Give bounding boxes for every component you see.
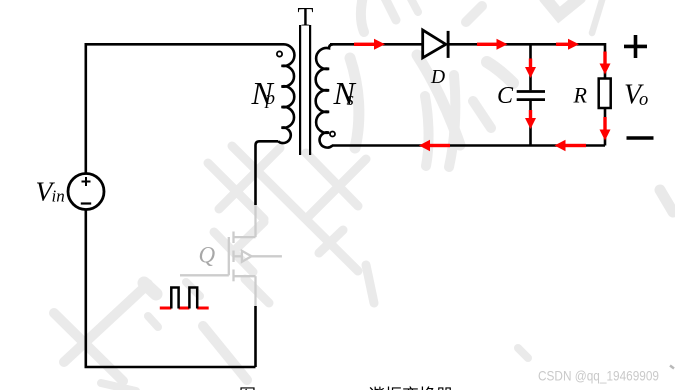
watermark lattice center <box>186 146 374 303</box>
wire top from Vin to transformer primary <box>86 44 281 173</box>
small speck right edge <box>670 366 674 369</box>
current arrow left on bottom wire at R <box>555 140 587 151</box>
current arrow down below R <box>600 117 611 141</box>
svg-text:s: s <box>347 89 354 110</box>
transformer T primary winding Np <box>278 44 294 143</box>
current arrow down into C <box>525 59 536 79</box>
wire MOSFET source to bottom <box>254 306 257 367</box>
current arrow left on bottom wire at C <box>419 140 450 151</box>
wire diode to output top corner, down through R to bottom <box>450 44 606 145</box>
label Ns <box>333 75 357 111</box>
plus terminal <box>624 35 647 58</box>
MOSFET Q (gray) <box>180 205 282 306</box>
wire left below Vin and bottom wire <box>86 210 256 368</box>
gate pulse waveform red baseline <box>160 307 209 310</box>
transformer secondary dot <box>330 132 335 137</box>
diode D <box>423 30 448 58</box>
svg-text:CSDN @qq_19469909: CSDN @qq_19469909 <box>538 368 659 384</box>
current arrow right before R <box>556 39 579 50</box>
label Np <box>251 75 276 111</box>
current arrow right after secondary <box>354 39 385 50</box>
label Vin <box>36 176 65 207</box>
minus terminal <box>627 136 654 140</box>
svg-text:in: in <box>52 187 65 206</box>
svg-text:Q: Q <box>199 243 216 268</box>
current arrow right after diode <box>477 39 508 50</box>
wire secondary top to diode <box>330 43 422 46</box>
gate pulse waveform black pulses <box>171 288 197 309</box>
transformer core bars <box>300 25 310 155</box>
current arrow down into R <box>600 52 611 75</box>
current arrow down below C <box>525 110 536 129</box>
watermark corner blob top-right <box>545 0 673 212</box>
transformer secondary winding Ns <box>316 44 333 147</box>
wire bottom secondary <box>332 144 605 147</box>
svg-text:C: C <box>497 83 514 109</box>
capacitor C branch wires <box>529 44 532 145</box>
svg-text:谐振变换器: 谐振变换器 <box>368 386 453 390</box>
wire transformer primary bottom to MOSFET drain <box>256 141 279 205</box>
svg-text:T: T <box>298 3 314 32</box>
svg-text:图: 图 <box>239 386 256 390</box>
svg-text:D: D <box>430 67 445 88</box>
label Vo <box>624 80 648 111</box>
voltage source Vin <box>68 174 104 210</box>
svg-text:p: p <box>264 88 276 109</box>
resistor R <box>599 79 611 109</box>
svg-text:o: o <box>639 90 648 110</box>
caption partial bottom edge <box>239 386 453 390</box>
watermark bottom-left X <box>54 283 528 390</box>
svg-text:R: R <box>573 83 588 108</box>
watermark strokes top cluster <box>350 0 513 167</box>
transformer primary dot <box>277 51 282 56</box>
capacitor C plates <box>517 92 545 100</box>
